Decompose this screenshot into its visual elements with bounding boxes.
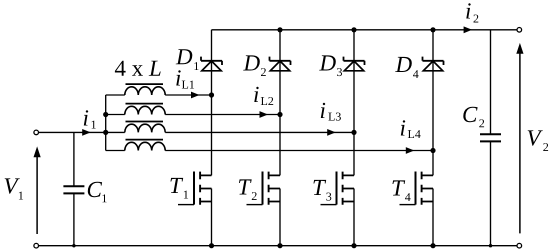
label V1 xyxy=(5,178,23,199)
terminal input top xyxy=(34,130,39,135)
label iL1 xyxy=(176,70,194,88)
diode D3 xyxy=(344,57,365,71)
arrow iL3 xyxy=(327,129,336,136)
wire bottom rail xyxy=(39,245,518,247)
wire D1/T1 branch vertical xyxy=(211,30,213,246)
arrow iL2 xyxy=(260,111,269,118)
arrow V2 xyxy=(516,43,523,234)
terminal output top xyxy=(517,28,522,33)
wire C1 branch xyxy=(73,132,75,245)
label 4 x L xyxy=(115,61,161,76)
transistor T4 xyxy=(400,172,434,205)
wire row 3 to D3/T3 node xyxy=(165,131,354,133)
node left bus row 3 xyxy=(103,130,108,135)
node phase 3 junction xyxy=(351,130,356,135)
inductor L phase 1 xyxy=(125,84,165,95)
diode D2 xyxy=(270,57,291,71)
label i1 xyxy=(84,110,96,128)
wire D4/T4 branch vertical xyxy=(432,30,434,246)
inductor L phase 3 xyxy=(125,122,165,133)
wire top rail xyxy=(212,29,518,31)
node bottom rail C2 xyxy=(489,244,492,247)
inductor L phase 4 xyxy=(125,140,165,151)
wire C2 branch xyxy=(490,30,492,246)
label T2 xyxy=(239,179,257,200)
transistor T1 xyxy=(178,172,212,205)
label T4 xyxy=(393,180,411,201)
wire row 1 to D1/T1 node xyxy=(106,94,212,96)
node top rail D4 xyxy=(430,27,435,32)
arrow i1 xyxy=(82,129,91,136)
label iL4 xyxy=(401,120,421,138)
node bottom rail T3 xyxy=(351,243,356,248)
inductor L phase 2 xyxy=(125,104,165,115)
wire D2/T2 branch vertical xyxy=(279,30,281,246)
label D1 xyxy=(176,49,199,70)
node bottom rail T1 xyxy=(209,243,214,248)
transistor T2 xyxy=(247,172,281,205)
wire row 4 to D4/T4 node xyxy=(106,150,433,152)
diode D4 xyxy=(423,57,444,71)
wire row 2 to D2/T2 node xyxy=(106,114,280,116)
diode D1 xyxy=(201,57,222,71)
node phase 4 junction xyxy=(430,148,435,153)
arrow iL1 xyxy=(191,92,200,99)
arrow i2 xyxy=(464,26,473,33)
wire left bus vertical xyxy=(105,95,107,151)
node bottom rail C1 xyxy=(72,244,75,247)
wire input (row 3 left of inductor) xyxy=(39,131,125,133)
arrow iL4 xyxy=(406,147,415,154)
node top rail D2 xyxy=(277,27,282,32)
terminal output bottom xyxy=(517,243,522,248)
node phase 1 junction xyxy=(209,92,214,97)
node left bus row 2 xyxy=(103,112,108,117)
label iL3 xyxy=(321,103,341,121)
label D2 xyxy=(243,55,266,76)
label i2 xyxy=(466,3,478,22)
label iL2 xyxy=(254,87,273,105)
node bottom rail T2 xyxy=(277,243,282,248)
label T3 xyxy=(314,180,332,201)
label C2 xyxy=(463,107,484,128)
capacitor C2 xyxy=(480,134,501,141)
label D4 xyxy=(395,57,418,78)
wire D3/T3 branch vertical xyxy=(353,30,355,246)
node bottom rail T4 xyxy=(430,243,435,248)
transistor T3 xyxy=(321,172,355,205)
label C1 xyxy=(88,182,107,203)
label T1 xyxy=(171,178,189,199)
label D3 xyxy=(319,55,342,76)
terminal input bottom xyxy=(34,243,39,248)
label V2 xyxy=(528,130,548,151)
node top rail D3 xyxy=(351,27,356,32)
arrow V1 xyxy=(34,146,41,234)
node phase 2 junction xyxy=(277,112,282,117)
capacitor C1 xyxy=(63,186,84,193)
